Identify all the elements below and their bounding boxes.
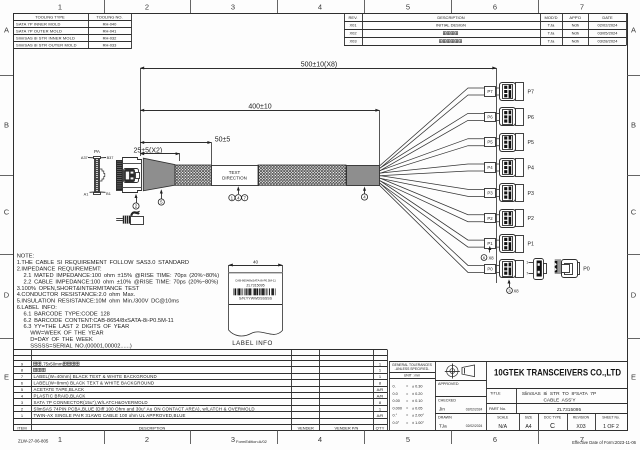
svg-text:7: 7	[526, 271, 528, 275]
svg-text:1: 1	[526, 261, 528, 265]
svg-text:50±5: 50±5	[215, 136, 231, 143]
svg-text:C: C	[4, 208, 10, 217]
svg-text:6.LABEL INFO:: 6.LABEL INFO:	[17, 305, 58, 311]
svg-text:DATE: DATE	[602, 15, 613, 20]
svg-text:03/28/2024: 03/28/2024	[597, 39, 618, 44]
svg-text:0.0: 0.0	[393, 392, 398, 396]
svg-text:SlimSAS 8i STR OUTER MOLD: SlimSAS 8i STR OUTER MOLD	[16, 43, 77, 48]
svg-text:ZL7315095: ZL7315095	[557, 407, 582, 413]
svg-text:2.1 MATED IMPEDANCE:100 ohm ±1: 2.1 MATED IMPEDANCE:100 ohm ±15% @RISE T…	[24, 273, 220, 279]
svg-text:D: D	[631, 291, 637, 300]
svg-text:PART No.: PART No.	[489, 406, 506, 411]
svg-text:NOTE:: NOTE:	[17, 254, 35, 260]
svg-text:2.IMPEDANCE REQUIREMEMT:: 2.IMPEDANCE REQUIREMEMT:	[17, 267, 102, 273]
svg-text:± 0.30: ± 0.30	[412, 385, 423, 389]
svg-text:2: 2	[145, 435, 149, 444]
svg-text:TJa: TJa	[439, 424, 447, 429]
svg-text:40: 40	[253, 259, 259, 264]
svg-text:6: 6	[493, 435, 497, 444]
svg-text:1: 1	[58, 3, 62, 12]
svg-text:DRAWN: DRAWN	[438, 416, 452, 420]
svg-text:PLASTIC BRAID,BLACK: PLASTIC BRAID,BLACK	[34, 393, 86, 398]
svg-text:A4: A4	[525, 424, 531, 430]
svg-text:5: 5	[406, 3, 410, 12]
svg-text:LABEL INFO: LABEL INFO	[232, 340, 273, 347]
svg-text:P3: P3	[487, 190, 493, 195]
svg-text:Effective Date of Form:2023-11: Effective Date of Form:2023-11-06	[572, 440, 637, 445]
svg-text:B: B	[4, 121, 9, 130]
svg-text:D=DAY OF THE WEEK: D=DAY OF THE WEEK	[30, 337, 93, 343]
svg-text:SCALE: SCALE	[497, 415, 509, 419]
svg-text:DIRECTION: DIRECTION	[222, 176, 247, 181]
svg-text:P4: P4	[528, 165, 535, 171]
svg-text:P6: P6	[528, 115, 535, 121]
svg-text:B: B	[631, 121, 636, 130]
svg-text:X8: X8	[489, 255, 495, 260]
svg-text:APP'D: APP'D	[569, 15, 581, 20]
svg-text:X01: X01	[349, 23, 357, 28]
svg-text:6.2 BARCODE CONTENT:CAB-8654/8: 6.2 BARCODE CONTENT:CAB-8654/8xSATA-8i-P…	[24, 318, 174, 324]
svg-text:X8: X8	[514, 288, 520, 293]
svg-text:P0: P0	[487, 266, 493, 271]
svg-text:6.1 BARCODE TYPE:CODE 128: 6.1 BARCODE TYPE:CODE 128	[24, 311, 110, 317]
svg-text:FormEdition:A/02: FormEdition:A/02	[236, 439, 268, 444]
svg-text:B1: B1	[106, 192, 111, 196]
svg-text:DESCRIPTION: DESCRIPTION	[437, 15, 464, 20]
svg-text:5: 5	[406, 435, 410, 444]
svg-text:LABEL(W=8mm) BLACK TEXT & WHIT: LABEL(W=8mm) BLACK TEXT & WHITE BACKGROU…	[34, 381, 155, 386]
svg-text:SATA 7P OUTER MOLD: SATA 7P OUTER MOLD	[16, 29, 62, 34]
svg-text:02/02/2024: 02/02/2024	[597, 23, 618, 28]
svg-text:SATA 7P CONNECTOR(15u"),W/LATC: SATA 7P CONNECTOR(15u"),W/LATCH&OVERMOLD	[34, 400, 148, 405]
svg-text:4.CONDUCTOR RESISTANCE:2.0 ohm: 4.CONDUCTOR RESISTANCE:2.0 ohm Max.	[17, 292, 136, 298]
svg-text:P5: P5	[487, 140, 493, 145]
svg-text:1 OF 2: 1 OF 2	[603, 424, 619, 430]
svg-text:X02: X02	[349, 31, 357, 36]
svg-text:A: A	[631, 26, 636, 35]
svg-text:4: 4	[318, 3, 322, 12]
svg-text:A: A	[4, 26, 9, 35]
svg-text:ACETATE TAPE,BLACK: ACETATE TAPE,BLACK	[34, 387, 85, 392]
svg-text:± 0.10: ± 0.10	[412, 399, 423, 403]
svg-text:TJa: TJa	[548, 31, 555, 36]
svg-text:6.3 YY=THE LAST 2 DIGITS OF YE: 6.3 YY=THE LAST 2 DIGITS OF YEAR	[24, 324, 130, 330]
svg-text:PA: PA	[94, 149, 101, 155]
svg-text:CAB-8654/8xSATA-8i-P0.5M-11: CAB-8654/8xSATA-8i-P0.5M-11	[235, 278, 276, 282]
svg-text:P1: P1	[487, 241, 493, 246]
svg-text:03/05/2024: 03/05/2024	[597, 31, 618, 36]
svg-text:DOC TYPE: DOC TYPE	[544, 415, 562, 419]
svg-text:SIZE: SIZE	[525, 415, 533, 419]
svg-text:VENDER: VENDER	[298, 425, 314, 430]
svg-text:N/A: N/A	[498, 424, 507, 430]
svg-text:1: 1	[58, 435, 62, 444]
svg-text:0.0°: 0.0°	[393, 421, 400, 425]
svg-text:0.000: 0.000	[393, 406, 403, 410]
svg-text:3.100% OPEN,SHORT&INTERMITANCE: 3.100% OPEN,SHORT&INTERMITANCE TEST	[17, 286, 140, 292]
svg-text:WW=WEEK OF THE YEAR: WW=WEEK OF THE YEAR	[30, 331, 103, 337]
svg-text:E: E	[4, 373, 9, 382]
svg-text:X03: X03	[349, 39, 357, 44]
svg-text:2.2 CABLE IMPEDANCE:100 ohm ±1: 2.2 CABLE IMPEDANCE:100 ohm ±10% @RISE T…	[24, 279, 219, 285]
svg-text:Q'TY: Q'TY	[376, 425, 385, 430]
svg-text:SlimSAS 8i STR INNER MOLD: SlimSAS 8i STR INNER MOLD	[16, 36, 75, 41]
svg-text:P5: P5	[528, 140, 535, 146]
svg-text:SSSSS=SERIAL NO.(00001,00002..: SSSSS=SERIAL NO.(00001,00002......)	[30, 343, 132, 349]
svg-text:D: D	[4, 291, 10, 300]
svg-text:LABEL(W=40mm) BLACK TEXT & WHI: LABEL(W=40mm) BLACK TEXT & WHITE BACKGRO…	[34, 374, 157, 379]
svg-text:A/R: A/R	[377, 413, 384, 418]
svg-text:4: 4	[318, 435, 322, 444]
svg-text:P7: P7	[487, 89, 493, 94]
svg-text:7: 7	[580, 3, 584, 12]
svg-text:A/R: A/R	[377, 393, 384, 398]
svg-text:P2: P2	[487, 216, 493, 221]
svg-text:SlimSAS 8i STR TO 8*SATA 7P: SlimSAS 8i STR TO 8*SATA 7P	[522, 391, 596, 397]
svg-text:SATA 7P INNER MOLD: SATA 7P INNER MOLD	[16, 22, 61, 27]
svg-text:E: E	[631, 373, 636, 382]
svg-text:B37: B37	[107, 156, 114, 160]
svg-text:0.: 0.	[393, 385, 396, 389]
svg-text:P0: P0	[583, 266, 590, 272]
svg-text:SlimSAS 74PIN PCBA,BLUE (Diff: SlimSAS 74PIN PCBA,BLUE (Diff 100 Ohm an…	[34, 406, 255, 411]
svg-text:C: C	[550, 423, 555, 430]
svg-text:P2: P2	[528, 216, 535, 222]
svg-text:P6: P6	[487, 114, 493, 119]
svg-text:RH-041: RH-041	[103, 29, 118, 34]
svg-text:± 0.05: ± 0.05	[412, 406, 423, 410]
svg-text:ZL7315095: ZL7315095	[246, 284, 264, 288]
svg-text:2: 2	[145, 3, 149, 12]
svg-text:TJa: TJa	[548, 23, 555, 28]
svg-text:VENDER P/N: VENDER P/N	[335, 425, 359, 430]
svg-text:DESCRIPTION: DESCRIPTION	[139, 425, 166, 430]
svg-text:REV.: REV.	[349, 15, 358, 20]
svg-text:MOD'D: MOD'D	[545, 15, 558, 20]
svg-text:P3: P3	[528, 191, 535, 197]
svg-text:± 1.00°: ± 1.00°	[412, 421, 425, 425]
svg-text:P7: P7	[528, 89, 535, 95]
svg-text:REVISION: REVISION	[573, 415, 590, 419]
svg-text:ITEM: ITEM	[17, 425, 26, 430]
svg-text:UNIT : mm: UNIT : mm	[404, 374, 420, 378]
svg-text:Jin: Jin	[439, 406, 445, 411]
svg-text:RH-032: RH-032	[103, 36, 118, 41]
svg-text:6: 6	[493, 3, 497, 12]
svg-text:5.INSULATION RESISTANCE:10M oh: 5.INSULATION RESISTANCE:10M ohm Min./300…	[17, 299, 179, 305]
svg-text:SHEET No.: SHEET No.	[602, 415, 620, 419]
svg-text:TEXT: TEXT	[229, 170, 241, 175]
svg-text:TJa: TJa	[548, 39, 555, 44]
svg-text:S/N:YYWWDSSSSS: S/N:YYWWDSSSSS	[239, 296, 273, 300]
svg-text:± 0.20: ± 0.20	[412, 392, 423, 396]
svg-text:P4: P4	[487, 165, 493, 170]
svg-text:0.°: 0.°	[393, 414, 398, 418]
svg-text:RH-040: RH-040	[103, 22, 118, 27]
svg-text:TWIN-AX SINGLE PAIR 31AWG CABL: TWIN-AX SINGLE PAIR 31AWG CABLE 100 ohm …	[34, 413, 186, 418]
svg-text:02/02/2024: 02/02/2024	[466, 424, 483, 428]
svg-text:A/R: A/R	[377, 387, 384, 392]
svg-text:1.THE CABLE SI REQUIREMENT FOL: 1.THE CABLE SI REQUIREMENT FOLLOW SAS3.0…	[17, 260, 189, 266]
svg-text:CABLE ASS’Y: CABLE ASS’Y	[543, 398, 576, 404]
svg-text:Ndh: Ndh	[572, 31, 579, 36]
svg-text:APPROVED: APPROVED	[438, 382, 459, 386]
svg-text:± 2.00°: ± 2.00°	[412, 414, 425, 418]
svg-text:3: 3	[231, 3, 235, 12]
svg-text:3: 3	[231, 435, 235, 444]
svg-text:,75x50mm,: ,75x50mm,	[42, 361, 64, 366]
svg-text:X03: X03	[576, 424, 585, 430]
svg-text:TOOLING TYPE: TOOLING TYPE	[35, 15, 65, 20]
svg-text:P1: P1	[528, 242, 535, 248]
svg-text:INITIAL DESIGN: INITIAL DESIGN	[436, 23, 466, 28]
svg-text:RH-033: RH-033	[103, 43, 118, 48]
svg-text:ZLW-27-06-805: ZLW-27-06-805	[18, 439, 49, 444]
svg-text:-UNLESS SPECIFIED-: -UNLESS SPECIFIED-	[395, 367, 430, 371]
svg-text:A37: A37	[81, 156, 88, 160]
svg-text:TITLE: TITLE	[490, 391, 501, 396]
svg-text:500±10(X8): 500±10(X8)	[301, 61, 338, 68]
svg-text:02/02/2024: 02/02/2024	[466, 407, 483, 411]
svg-text:0.00: 0.00	[393, 399, 400, 403]
svg-text:400±10: 400±10	[248, 103, 271, 110]
svg-text:10GTEK TRANSCEIVERS CO.,LTD: 10GTEK TRANSCEIVERS CO.,LTD	[494, 367, 621, 378]
svg-text:CHECKED: CHECKED	[438, 399, 456, 403]
svg-text:A1: A1	[84, 192, 89, 196]
svg-text:C: C	[631, 208, 637, 217]
svg-text:Ndh: Ndh	[572, 39, 579, 44]
svg-text:TOOLING NO.: TOOLING NO.	[96, 15, 122, 20]
svg-text:Ndh: Ndh	[572, 23, 579, 28]
